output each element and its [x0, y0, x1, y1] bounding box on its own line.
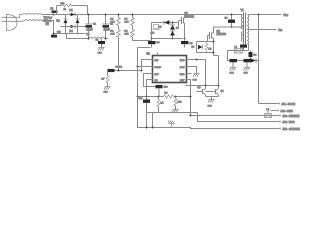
diode D8 output [251, 58, 259, 62]
svg-text:INV: INV [155, 60, 159, 62]
svg-text:CS: CS [155, 80, 159, 82]
ground below C7 [230, 68, 237, 75]
wire secondary tap output [249, 29, 277, 31]
svg-text:Q3: Q3 [198, 87, 202, 89]
wire U1 pin INV [142, 60, 153, 71]
wire feedback rail [138, 96, 164, 98]
capacitor C8 [244, 59, 252, 68]
svg-text:IRFP250: IRFP250 [217, 33, 227, 36]
capacitor C9 0.1 [108, 67, 123, 76]
wire Q2 drain rail [214, 26, 244, 28]
capacitor C10 timing [156, 85, 169, 97]
svg-text:30K: 30K [111, 22, 115, 24]
capacitor C5 [181, 39, 193, 48]
svg-text:R4: R4 [125, 31, 129, 33]
svg-text:J81 - DC HI: J81 - DC HI [282, 102, 296, 106]
ground chassis below C3 [98, 48, 105, 55]
svg-text:D6: D6 [176, 28, 179, 30]
transistor Q3 [197, 86, 206, 97]
wire U1 pin OSC right [187, 67, 197, 74]
capacitor C11 [139, 97, 151, 113]
svg-text:R3: R3 [125, 19, 129, 21]
svg-text:R10: R10 [178, 102, 183, 104]
svg-text:C4: C4 [157, 42, 161, 44]
svg-text:2K: 2K [161, 103, 164, 105]
resistor R5 gate [205, 36, 212, 53]
wire U1 pin OUT right [187, 80, 191, 116]
wire output dc bus [228, 60, 251, 62]
wire bridge mid rail [61, 26, 86, 28]
svg-text:VCC: VCC [180, 60, 185, 62]
svg-text:GND: GND [244, 73, 249, 75]
diode D9 [170, 30, 175, 39]
svg-text:D7: D7 [192, 47, 196, 49]
svg-text:R11: R11 [61, 3, 66, 5]
wire OTP run [138, 97, 279, 129]
svg-text:4.0uF: 4.0uF [104, 28, 111, 31]
wire DC HI vertical [258, 15, 260, 104]
ferrite bead L4 on feedback [265, 109, 277, 118]
resistor R1 30K [111, 14, 121, 29]
capacitor C6 blocking [225, 14, 236, 29]
svg-text:GND: GND [208, 106, 213, 108]
svg-text:R2: R2 [111, 31, 115, 33]
wire VCC run [191, 113, 279, 122]
wire RC to ground net [108, 70, 119, 72]
svg-text:30K: 30K [111, 34, 115, 36]
resistor R3 30K [125, 14, 135, 29]
svg-text:D2: D2 [57, 20, 61, 23]
wire R9 leg to OTP rail [147, 113, 153, 128]
wire switch node [184, 25, 186, 39]
wire AC neutral to bridge [43, 21, 54, 34]
svg-text:D5: D5 [159, 27, 163, 29]
svg-text:R8: R8 [165, 93, 169, 95]
svg-text:J82 - GND: J82 - GND [281, 109, 293, 113]
wire snubber bus [152, 23, 179, 39]
ground chassis on OTP rail [168, 121, 175, 128]
svg-text:C5: C5 [190, 43, 194, 45]
svg-text:J85 - OTP/OUP: J85 - OTP/OUP [283, 127, 301, 131]
capacitor C2 4.0uF [103, 14, 114, 40]
svg-text:C1: C1 [93, 24, 97, 26]
svg-text:C6: C6 [225, 18, 229, 20]
ground below OSC [193, 74, 200, 82]
resistor R4 30K [125, 29, 135, 41]
wire lower rail [147, 112, 191, 114]
wire return rail [67, 34, 89, 39]
svg-text:D4: D4 [70, 30, 74, 33]
resistor R7 [102, 76, 110, 87]
diode D6 [170, 22, 179, 30]
svg-text:10: 10 [64, 9, 67, 11]
inductor L3 output [235, 47, 243, 54]
svg-text:GND: GND [98, 53, 103, 55]
svg-text:U1: U1 [147, 52, 151, 56]
wire Q2 source bus [214, 41, 219, 86]
connector J1 AC plug [2, 15, 25, 31]
diode D3 [76, 15, 80, 34]
connector J8-1 DC HI [278, 102, 296, 106]
resistor R8 series [164, 93, 174, 99]
diode D5 [159, 20, 170, 28]
capacitor C1 1.0uF [86, 14, 97, 40]
connector J8-2 GND [277, 109, 293, 113]
svg-text:R5: R5 [209, 49, 213, 51]
svg-text:COMP: COMP [155, 67, 162, 69]
inductor L2 [87, 33, 105, 39]
diode D4 [70, 25, 76, 34]
wire secondary top output [249, 14, 282, 16]
wire AC line to bridge [43, 14, 54, 16]
resistor R2 30K [111, 29, 121, 71]
wire C11 leg to OTP rail [146, 113, 148, 128]
wire COMP net down [137, 67, 139, 97]
resistor R9 [157, 97, 164, 113]
wire top rail [54, 14, 243, 16]
ground below C8 [244, 68, 251, 75]
wire return rail cont [105, 38, 108, 40]
capacitor C7 [230, 59, 238, 68]
svg-text:(F): (F) [46, 22, 49, 26]
svg-text:C12: C12 [151, 33, 156, 35]
svg-text:OSC: OSC [180, 67, 185, 69]
svg-text:J83 - FEEDBK: J83 - FEEDBK [283, 114, 300, 118]
connector J8-4 VCC [279, 120, 295, 124]
wire FEEDBK run [191, 115, 279, 117]
inductor L1 common-mode choke [23, 14, 43, 21]
svg-text:R7: R7 [102, 79, 106, 81]
transformer T1 [241, 8, 249, 46]
ground below R7 [104, 87, 111, 94]
wire emitters join [206, 97, 219, 100]
resistor R11 bypass [57, 3, 88, 15]
wire U1 pin VCC right [187, 60, 206, 86]
svg-text:J84 - VCC: J84 - VCC [283, 120, 295, 124]
svg-text:D1: D1 [70, 9, 74, 12]
wire driver bus [186, 85, 219, 87]
diode D1 [70, 9, 76, 17]
transistor Q4 [206, 86, 225, 97]
IC U1 PWM controller [147, 52, 187, 83]
svg-text:P1+: P1+ [284, 13, 289, 17]
resistor R6 snubber [249, 51, 258, 61]
svg-text:F1: F1 [51, 8, 54, 11]
wire rail cont [174, 96, 191, 98]
node snubber [151, 38, 153, 40]
svg-text:C9 0.1: C9 0.1 [116, 67, 123, 69]
mosfet Q1 [179, 12, 195, 26]
resistor R10 [174, 97, 182, 110]
ground below driver [208, 100, 215, 108]
svg-text:C11: C11 [139, 98, 144, 100]
svg-text:Q4: Q4 [221, 91, 225, 93]
aux winding lead and snubber blob [243, 42, 245, 45]
wire secondary bottom to rectifier [228, 44, 249, 61]
wire U1 pin CS [147, 80, 153, 97]
svg-text:C2: C2 [110, 24, 114, 26]
svg-text:R1: R1 [111, 19, 115, 21]
ground below R10 [172, 110, 179, 113]
connector J8-3 FEEDBK [279, 114, 300, 118]
fuse F1 [51, 8, 58, 13]
svg-text:30K: 30K [125, 34, 129, 36]
mosfet Q2 [208, 27, 227, 41]
svg-text:OUT: OUT [180, 80, 185, 82]
wire R4 to U1 area [133, 41, 151, 67]
wire DC HI out [259, 103, 278, 105]
svg-text:R6: R6 [254, 55, 258, 57]
svg-text:L4: L4 [267, 109, 270, 111]
svg-text:LFB: LFB [155, 74, 160, 76]
node bridge bottom [53, 33, 55, 35]
capacitor C4 [148, 39, 160, 48]
node choke/bridge junction [53, 14, 55, 16]
capacitor C3 0.0068 to ground [96, 39, 106, 48]
capacitor C13 [51, 35, 57, 38]
connector J8-5 OTP/OUP [279, 127, 301, 131]
label TB Pwr 110vac [44, 16, 53, 26]
svg-text:IRFP250: IRFP250 [185, 15, 195, 18]
wire return to caps [152, 38, 183, 40]
wire divider to U1 [119, 70, 142, 72]
capacitor C12 [151, 25, 161, 35]
svg-text:C10: C10 [164, 87, 169, 89]
svg-text:GND: GND [180, 74, 185, 76]
wire U1 pin GND right [187, 73, 192, 75]
svg-text:GND: GND [104, 92, 109, 94]
svg-text:T1: T1 [241, 8, 245, 12]
wire U1 pin LFB [144, 74, 156, 87]
svg-text:GND: GND [193, 80, 198, 82]
diode D2 [57, 15, 68, 34]
wire bridge bottom rail [54, 33, 86, 35]
diode D7 gate clamp [192, 42, 214, 53]
svg-text:P1-: P1- [279, 28, 283, 32]
svg-text:30K: 30K [125, 22, 129, 24]
wire U1 pin COMP [138, 66, 153, 68]
svg-text:GND: GND [230, 73, 235, 75]
svg-text:1.0uF: 1.0uF [87, 28, 94, 31]
